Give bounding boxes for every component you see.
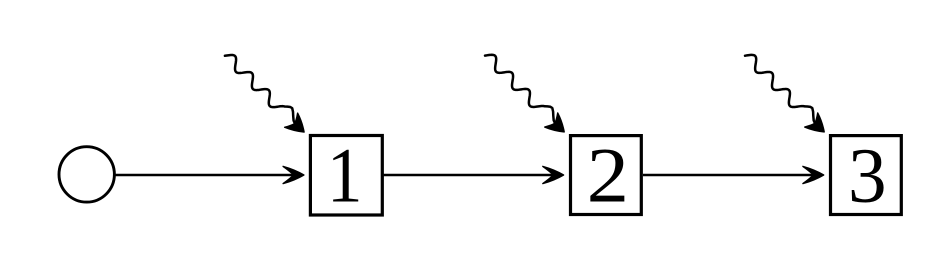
svg-text:3: 3 [848, 132, 887, 218]
svg-text:1: 1 [327, 133, 363, 220]
svg-text:2: 2 [587, 132, 629, 219]
